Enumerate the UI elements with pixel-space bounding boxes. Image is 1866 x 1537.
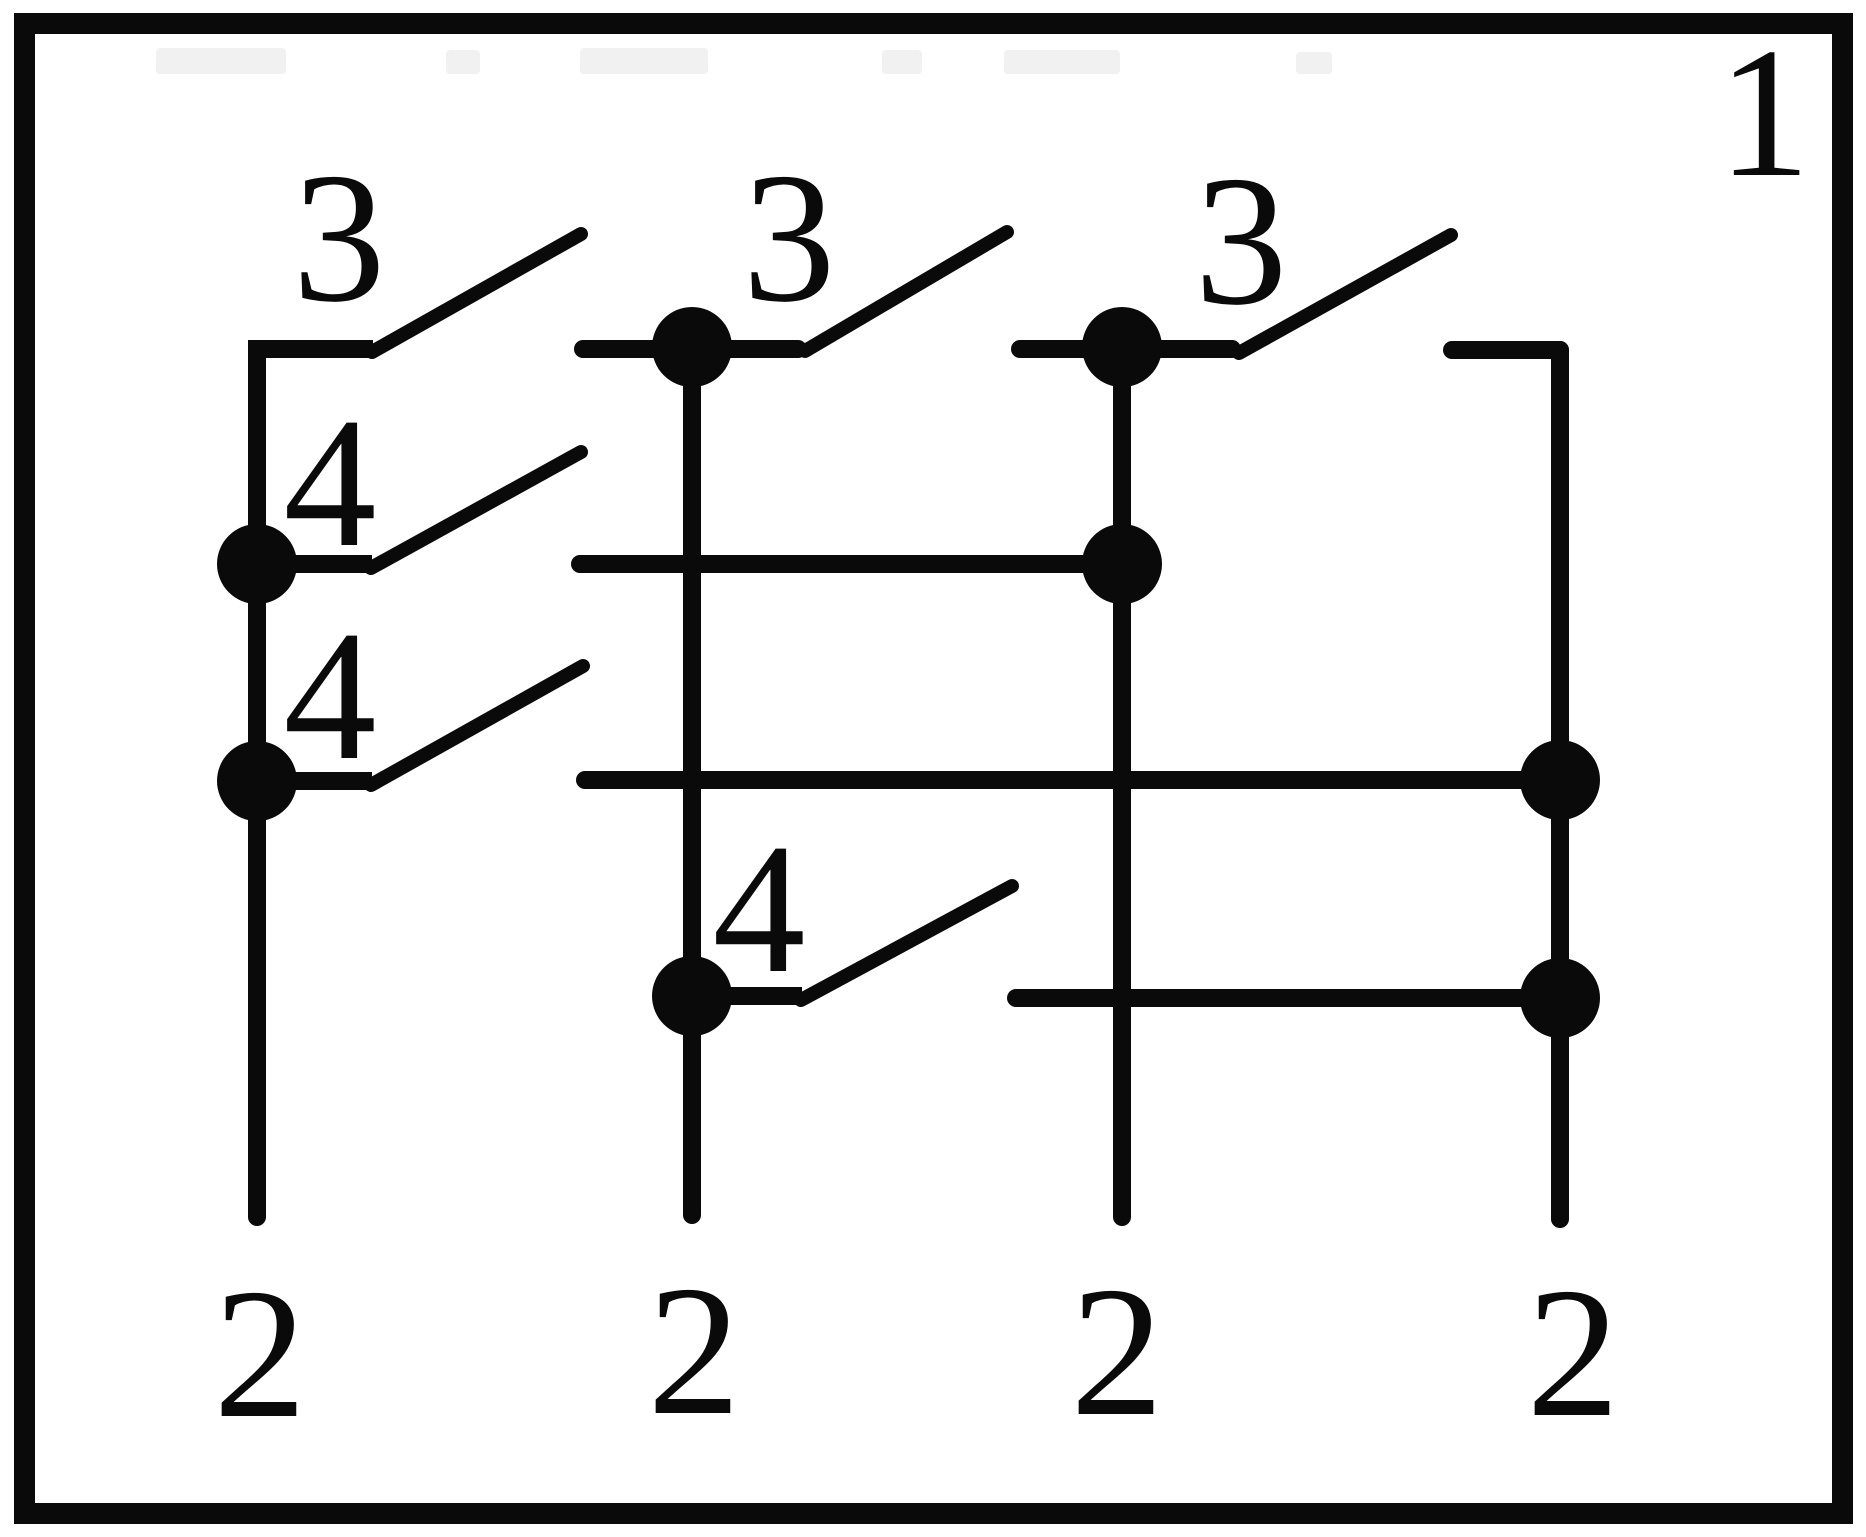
wire column W4 (terminal 2, rightmost vertical) bbox=[1551, 350, 1569, 1219]
switch S1 blade (label 3) bbox=[372, 234, 581, 352]
svg-text:2: 2 bbox=[648, 1248, 741, 1454]
wire column W1 (terminal 2, leftmost vertical) bbox=[248, 349, 266, 1217]
svg-text:3: 3 bbox=[1195, 138, 1288, 344]
junction J7 bbox=[652, 956, 732, 1036]
switch S6 blade (label 4) bbox=[801, 886, 1012, 1000]
wire rail A bbox=[580, 555, 1122, 573]
switch S3 blade (label 3) bbox=[1239, 235, 1451, 353]
svg-text:2: 2 bbox=[214, 1251, 307, 1457]
switch S5 blade (label 4) bbox=[371, 666, 583, 785]
svg-text:4: 4 bbox=[713, 806, 806, 1012]
wire top rail segment at W2 bbox=[583, 340, 798, 358]
wire column W2 (terminal 2, second vertical) bbox=[683, 347, 701, 1215]
switch S4 blade (label 4) bbox=[371, 452, 581, 568]
svg-text:4: 4 bbox=[284, 593, 377, 799]
wire stub at J5 bbox=[257, 772, 372, 790]
junction J2 bbox=[1082, 307, 1162, 387]
switch S2 blade (label 3) bbox=[805, 232, 1007, 351]
junction J6 bbox=[1520, 740, 1600, 820]
junction J1 bbox=[652, 307, 732, 387]
svg-text:2: 2 bbox=[1071, 1249, 1164, 1455]
wire W1 top corner horizontal bbox=[248, 340, 373, 358]
faint scan smudges top bbox=[156, 48, 1332, 74]
svg-text:3: 3 bbox=[743, 135, 836, 341]
wire rail C bbox=[1016, 989, 1560, 1007]
svg-text:1: 1 bbox=[1718, 10, 1811, 216]
svg-text:4: 4 bbox=[284, 380, 377, 586]
wire stub at J3 bbox=[257, 555, 372, 573]
wire rail B bbox=[585, 771, 1560, 789]
svg-text:3: 3 bbox=[293, 135, 386, 341]
junction J4 bbox=[1082, 524, 1162, 604]
junction J3 bbox=[217, 524, 297, 604]
wire W4 top corner horizontal bbox=[1452, 341, 1560, 359]
wire column W3 (terminal 2, third vertical) bbox=[1113, 347, 1131, 1217]
wire stub at J7 bbox=[692, 987, 802, 1005]
junction J5 bbox=[217, 741, 297, 821]
wire top rail segment at W3 bbox=[1020, 340, 1232, 358]
svg-text:2: 2 bbox=[1527, 1250, 1620, 1456]
junction J8 bbox=[1520, 958, 1600, 1038]
